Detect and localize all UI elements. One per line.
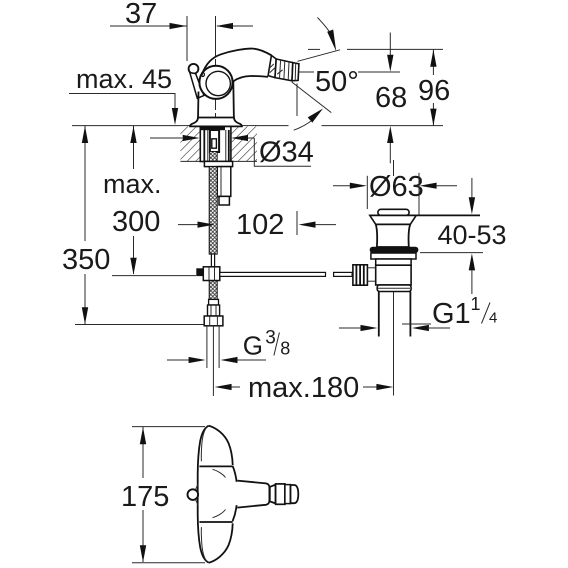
svg-text:102: 102: [236, 209, 284, 241]
inner cartridge circle: [206, 71, 230, 95]
svg-text:40-53: 40-53: [438, 220, 507, 250]
aerator collar: [268, 55, 276, 77]
50 degree spray angle annotation: [292, 18, 443, 131]
handle left arc: [198, 426, 209, 563]
body mid: [376, 265, 411, 285]
base column: [197, 92, 200, 120]
svg-text:300: 300: [112, 206, 160, 238]
svg-text:max. 45: max. 45: [76, 64, 172, 94]
curved leader with arrowhead: [318, 18, 331, 34]
knob to body link: [367, 267, 375, 269]
svg-text:1: 1: [471, 294, 481, 314]
center line: [393, 160, 395, 176]
knurl shading ticks: [269, 64, 274, 68]
angle arc with arrowhead: [294, 117, 316, 130]
68 level extension line: [299, 71, 314, 73]
body circle: [199, 66, 232, 99]
braided hose upper segment inside shank: [210, 152, 218, 163]
top flange: [370, 214, 480, 216]
annotation max. 45 with leader arrow to deck top: [69, 64, 178, 125]
svg-text:350: 350: [62, 244, 110, 276]
svg-text:3: 3: [265, 328, 276, 349]
dimension 68: [375, 33, 407, 164]
tailpipe: [378, 292, 380, 337]
aerator knurled band: [275, 59, 293, 81]
horizontal pop-up rod to waste: [220, 272, 326, 276]
pop-up lift rod lower section and clamp connector: [112, 254, 352, 299]
dimension 175: [121, 427, 205, 563]
dimension max.180: [215, 372, 394, 404]
svg-text:8: 8: [280, 339, 290, 359]
braided flexible hose: [209, 167, 217, 255]
hose end fittings and supply pipe: [204, 299, 223, 396]
inner corner arcs: [213, 469, 226, 477]
o-ring seal: [370, 247, 419, 253]
screw hole dot: [201, 73, 204, 77]
base escutcheon: [190, 118, 242, 127]
svg-text:50°: 50°: [315, 66, 359, 98]
bottom collar: [377, 285, 411, 292]
threaded tail G3/8: [206, 326, 208, 368]
label G 3/8 with dimension arrows: [167, 328, 290, 364]
svg-text:175: 175: [121, 481, 169, 513]
102 right extension line upper part: [296, 84, 298, 117]
tapered body upper: [376, 224, 410, 247]
dimension diameter 63: [333, 171, 457, 215]
shank nut below deck: [204, 161, 232, 166]
bottom plan view of faucet: [188, 426, 299, 563]
svg-text:max.180: max.180: [248, 372, 359, 404]
dimension 96: [418, 50, 450, 126]
top wing: [209, 426, 233, 465]
dimension 40-53: [420, 178, 507, 294]
svg-text:Ø63: Ø63: [369, 171, 424, 203]
bottom wing front edge: [199, 521, 232, 523]
dimension max. 300 (vertical): [103, 126, 162, 275]
svg-text:G1: G1: [432, 298, 471, 330]
lever arm: [190, 73, 204, 99]
braided hose lower segment: [209, 281, 217, 300]
line A from aerator top corner to 96-level: [298, 50, 341, 62]
dimension 102: [178, 209, 336, 241]
push cap: [378, 209, 409, 215]
spray direction line (50 deg): [292, 82, 332, 113]
dimension 350 (vertical): [62, 126, 204, 325]
top wing front edge: [199, 465, 232, 467]
spout aerator neck: [270, 485, 276, 504]
svg-text:Ø34: Ø34: [259, 137, 314, 169]
pop-up rod guide housing below deck: [217, 167, 231, 197]
spout bottom curve: [233, 76, 268, 82]
flange below o-ring: [371, 253, 416, 259]
knurled adjuster knob: [353, 265, 368, 285]
lever end ball left: [188, 489, 199, 500]
svg-text:4: 4: [489, 310, 497, 327]
SECTION: top dimension 37: [110, 0, 253, 126]
aerator cap: [291, 485, 299, 503]
spout cone: [237, 481, 269, 508]
body side edges: [233, 466, 237, 482]
spout top curve: [202, 49, 272, 76]
label G1 1/4 with dimension arrows: [339, 294, 497, 331]
flat 96 extension line: [308, 48, 320, 50]
aerator knurled band: [276, 484, 285, 504]
aerator end cap: [292, 63, 299, 81]
crescent highlights in handle: [201, 427, 206, 461]
svg-text:68: 68: [375, 82, 407, 114]
bottom wing: [209, 523, 233, 562]
dimension diameter 34: [150, 135, 314, 169]
svg-text:G: G: [243, 331, 263, 361]
faucet head side view: [189, 49, 299, 255]
pop-up waste assembly: [353, 160, 480, 396]
svg-text:96: 96: [418, 75, 450, 107]
svg-text:max.: max.: [103, 169, 162, 199]
lever ball: [189, 64, 199, 74]
deck / countertop cross-section: [72, 126, 443, 162]
mounting shank in hole below deck: [200, 126, 231, 161]
